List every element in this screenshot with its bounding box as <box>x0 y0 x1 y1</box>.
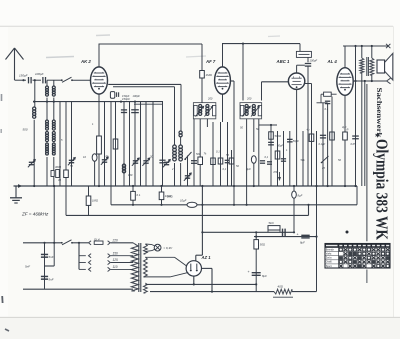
coil T2b <box>52 120 55 123</box>
node j6 <box>270 124 272 126</box>
svg-text:5nF: 5nF <box>25 265 30 269</box>
node j19 <box>255 231 257 233</box>
wire grid down <box>261 82 263 101</box>
svg-text:220: 220 <box>112 239 119 243</box>
svg-text:25: 25 <box>321 166 325 170</box>
resistor R14 10k <box>159 192 164 200</box>
svg-text:4μF: 4μF <box>246 167 251 171</box>
coil IF1a <box>199 104 202 107</box>
wire v66 low <box>65 186 67 215</box>
resistor R2 <box>97 136 102 154</box>
wire v227 <box>227 122 229 186</box>
wire rail y232 <box>202 231 294 233</box>
node j9 <box>364 80 366 82</box>
transformer IF1 frame <box>193 103 215 119</box>
resistor R17 <box>254 240 259 249</box>
wire S2 down <box>187 156 189 187</box>
capacitor C11 <box>268 141 274 143</box>
wire AZ1 cathode <box>193 276 195 284</box>
wire v243 top <box>242 44 244 101</box>
wire T1b top <box>53 80 55 86</box>
resistor R12 <box>343 132 348 140</box>
wire spk top <box>371 46 373 58</box>
wire rail y215 <box>66 214 309 216</box>
svg-text:8μF: 8μF <box>298 194 303 198</box>
wire grid links <box>331 93 336 95</box>
wire Ce2 down <box>253 163 255 186</box>
wire v283 <box>283 131 285 186</box>
svg-text:50k: 50k <box>301 158 306 162</box>
wire C1-C2 <box>33 79 42 81</box>
wire v66 <box>65 102 67 186</box>
wire v259 <box>258 119 260 186</box>
wire ABC1 topcap <box>296 65 298 73</box>
node j13 <box>293 231 295 233</box>
svg-text:≈ 6,3V: ≈ 6,3V <box>164 246 174 250</box>
trimmer CT4 <box>133 160 138 162</box>
resistor R4 <box>198 157 203 165</box>
wire v162 <box>162 102 164 186</box>
node j17 <box>201 204 203 206</box>
svg-text:500: 500 <box>23 128 28 132</box>
node j18 <box>255 283 257 285</box>
svg-text:50kΩ: 50kΩ <box>275 134 283 138</box>
coil T2d <box>52 132 55 135</box>
resistor R10 <box>309 134 314 141</box>
resistor R6 <box>218 158 223 164</box>
wire rail y236 <box>254 236 317 238</box>
wire AL4 anode up <box>344 46 346 68</box>
terminal arrow <box>387 78 391 84</box>
wire jog y266 <box>45 265 55 267</box>
wire selector stem <box>78 243 80 270</box>
svg-text:100: 100 <box>128 173 133 177</box>
coil L1 <box>33 107 36 110</box>
wire AK2 right <box>108 83 181 85</box>
transformer mains primary <box>131 244 138 291</box>
coil T2c <box>46 132 49 135</box>
svg-text:0.1: 0.1 <box>216 150 220 154</box>
resistor R8 50k <box>269 132 274 139</box>
coil sec pilot <box>144 244 148 254</box>
wire v311 <box>311 84 313 187</box>
wire bottom rail <box>150 291 274 293</box>
wire v332 <box>331 97 333 187</box>
capacitor Ce3 8uF <box>292 191 297 198</box>
tube AK2 <box>91 67 108 94</box>
smudges <box>46 35 280 58</box>
svg-text:Sachsenwerk: Sachsenwerk <box>375 88 382 138</box>
svg-text:50Ω: 50Ω <box>260 242 266 246</box>
wire L4b down <box>180 163 182 186</box>
wire IF1b down <box>206 119 208 127</box>
selector row150 <box>79 255 86 257</box>
capacitor C16 <box>282 229 284 236</box>
tube AF7 <box>215 67 231 94</box>
svg-text:150pF: 150pF <box>122 94 130 98</box>
svg-text:500: 500 <box>196 152 201 156</box>
transformer speaker core <box>366 57 368 76</box>
svg-text:200: 200 <box>207 97 213 101</box>
capacitor C2 100pF <box>42 77 44 83</box>
resistor R1 1M <box>200 71 205 79</box>
wire field down <box>361 73 363 186</box>
capacitor C17 8uF <box>301 234 309 236</box>
wire y104 short <box>134 103 163 105</box>
wire v231 <box>231 150 233 186</box>
wire L4a top <box>174 87 176 145</box>
coil L4b <box>179 145 183 149</box>
svg-text:0.1: 0.1 <box>137 193 141 197</box>
capacitor C10 100pF <box>305 63 311 65</box>
wire IF1a down <box>199 119 201 157</box>
wire top bus C <box>343 45 388 47</box>
wire v256 <box>255 232 257 291</box>
wire T1a top <box>46 80 48 86</box>
wire AK2 anode up <box>98 44 100 67</box>
selector row110 <box>79 268 86 270</box>
wire tap220 <box>111 242 133 244</box>
svg-text:AF 7: AF 7 <box>205 59 216 64</box>
coil sec heater <box>144 283 148 293</box>
wire ABC1 grid <box>262 81 289 83</box>
capacitor C9 box <box>296 51 311 57</box>
resistor R16 5k <box>268 226 280 230</box>
speaker <box>377 60 385 73</box>
svg-text:100pF: 100pF <box>133 94 141 98</box>
node j3 <box>33 101 35 103</box>
trimmer IF1 arrows <box>195 107 203 117</box>
wire v124 <box>123 102 125 186</box>
wire field top <box>361 46 363 58</box>
capacitor C20 8uF <box>252 272 261 274</box>
coil T1a <box>46 86 49 89</box>
svg-text:Bereich: Bereich <box>326 248 335 251</box>
wire v161 <box>161 186 163 205</box>
node j8 <box>361 45 363 47</box>
wire R1 down <box>201 78 203 103</box>
resistor Rg grid <box>324 92 332 96</box>
svg-text:50: 50 <box>226 153 229 157</box>
wire y125 <box>259 124 277 126</box>
capacitor padder Cp2 <box>51 171 54 177</box>
capacitor Ce2 4uF <box>251 156 256 164</box>
wire v111 <box>110 102 112 205</box>
svg-text:P4: P4 <box>274 170 278 174</box>
wire bus B right down <box>299 44 301 52</box>
capacitor C8 <box>225 159 231 161</box>
wire R4 down <box>199 165 201 187</box>
wire v104 <box>104 102 106 186</box>
wire AL4 anode right <box>354 80 387 82</box>
svg-text:200: 200 <box>246 97 252 101</box>
wire mains L2 <box>73 242 89 244</box>
wire heater rail <box>145 283 256 285</box>
node j7 <box>354 45 356 47</box>
wire v88 low <box>88 186 90 215</box>
svg-text:AL 4: AL 4 <box>327 59 338 64</box>
wire AF7 grid right <box>231 80 234 82</box>
resistor R3 <box>113 139 118 149</box>
svg-text:50pF: 50pF <box>293 139 299 143</box>
coil L3 <box>179 131 182 134</box>
wire v277 <box>277 131 279 186</box>
svg-text:Vorkr.: Vorkr. <box>326 253 332 256</box>
wire B+ corner <box>196 254 203 256</box>
wire ABC1 anode right <box>304 83 311 85</box>
wire v60 <box>59 102 61 186</box>
wire top bus B <box>222 43 300 45</box>
node j15 <box>78 242 80 244</box>
svg-text:4μF: 4μF <box>342 125 347 129</box>
wire v54 chassis <box>53 186 55 266</box>
capacitor C4 <box>121 109 127 111</box>
wire T1b down <box>53 98 55 120</box>
node j4 <box>120 101 122 103</box>
svg-text:100pF: 100pF <box>310 59 318 63</box>
wire L4a down <box>174 163 176 186</box>
wire v115 <box>115 102 117 186</box>
wire v294 seg <box>293 186 295 232</box>
table voltages <box>325 244 390 269</box>
wire T1a down <box>46 98 48 120</box>
resistor field coil <box>360 58 364 73</box>
switch S2 <box>185 152 191 159</box>
wire v234 <box>233 81 235 205</box>
wire trafo top <box>133 243 135 244</box>
wire v364 <box>364 81 366 186</box>
capacitor C15 <box>352 135 359 137</box>
svg-text:10μF: 10μF <box>180 199 187 203</box>
resistor R11 <box>330 132 335 140</box>
node j14 <box>255 236 257 238</box>
trimmer IF2 arrows <box>242 107 250 117</box>
svg-text:Olympia 383 WK: Olympia 383 WK <box>372 139 391 240</box>
wire v194 <box>193 119 195 187</box>
node j11 <box>233 204 235 206</box>
coil IF2a <box>245 104 248 107</box>
svg-text:40Ω: 40Ω <box>278 285 284 289</box>
transformer IF2 frame <box>240 103 262 119</box>
capacitor C18 5nF <box>41 253 48 255</box>
contact a1 <box>89 241 92 245</box>
capacitor Cg <box>325 100 330 102</box>
coil sec HV <box>144 257 148 277</box>
svg-text:AK 2: AK 2 <box>80 59 91 64</box>
switch S1 <box>61 79 63 81</box>
trimmer CT2 <box>69 159 74 161</box>
coil L4a <box>173 145 177 149</box>
selector row125 <box>79 262 86 264</box>
coil L2 <box>122 164 125 167</box>
wire T3b down <box>53 157 55 186</box>
wire bus A down <box>201 44 203 71</box>
coil IF1b <box>206 104 209 107</box>
wire B+ down <box>201 186 203 255</box>
resistor Rp <box>64 170 69 178</box>
antenna <box>14 49 16 80</box>
wire rail y205 <box>111 204 357 206</box>
wire v71 <box>71 102 73 186</box>
lamp pilot <box>154 244 161 251</box>
capacitor Ce4 10uF <box>187 202 197 207</box>
node j16 <box>53 242 55 244</box>
wire mains N <box>23 288 133 290</box>
svg-text:8μF: 8μF <box>262 274 267 278</box>
wire to L1 <box>34 80 36 107</box>
svg-text:Oszill.: Oszill. <box>326 261 333 264</box>
coil T3b <box>52 143 55 146</box>
resistor R15 1M <box>86 196 91 205</box>
resistor R13 <box>131 191 136 200</box>
svg-text:150pF: 150pF <box>19 74 28 78</box>
wire AL4 cathode <box>344 95 346 186</box>
capacitor padder Cp1 <box>56 170 60 178</box>
wire top bus A <box>99 43 203 45</box>
tube AZ1 <box>186 261 201 276</box>
ground <box>15 186 17 197</box>
capacitor grid AK2 <box>110 92 114 99</box>
svg-text:5nF: 5nF <box>49 277 54 281</box>
wire T3a down <box>46 157 48 186</box>
wire v140 <box>140 102 142 186</box>
switch S3 <box>322 156 329 163</box>
wire bus y102 <box>33 101 163 103</box>
wire HV top to AZ1 <box>145 256 174 258</box>
svg-text:5kΩ: 5kΩ <box>269 221 275 225</box>
capacitor C7 <box>191 160 197 162</box>
svg-text:ABC 1: ABC 1 <box>276 59 291 64</box>
wire v308 stub <box>308 205 310 216</box>
capacitor C14 <box>320 134 326 136</box>
wire v135 <box>134 102 136 186</box>
wire IF2b down <box>253 119 255 152</box>
svg-text:0,1: 0,1 <box>265 155 269 159</box>
wire L1 down <box>33 120 35 186</box>
svg-text:25: 25 <box>185 176 189 180</box>
node j1 <box>22 79 24 81</box>
wire AK2 screen <box>113 86 175 88</box>
ink speck <box>346 231 349 234</box>
svg-text:0.1μF: 0.1μF <box>319 142 326 146</box>
tube ABC1 <box>288 73 304 89</box>
svg-text:150: 150 <box>113 251 119 255</box>
wire IF2a down <box>246 119 248 205</box>
wire rail corner <box>356 186 358 205</box>
coil IF2b <box>252 104 255 107</box>
transformer core <box>138 243 140 292</box>
wire C9 down <box>307 57 309 62</box>
wire v213 <box>212 122 214 186</box>
separator line <box>366 84 368 241</box>
capacitor C12 <box>281 158 286 160</box>
capacitor Ce1 <box>92 154 97 162</box>
wire AF7 anode up <box>222 44 224 67</box>
wire v153 <box>152 102 154 186</box>
trimmer CT1 <box>29 161 34 163</box>
svg-text:0,1: 0,1 <box>223 167 227 171</box>
coil T1b <box>52 86 55 89</box>
wire ABC1 cathode <box>296 89 298 186</box>
resistor R9 <box>275 151 280 159</box>
wire v220 <box>220 122 222 186</box>
coil T2a <box>46 120 49 123</box>
svg-text:0.05: 0.05 <box>351 142 357 146</box>
svg-text:8μF: 8μF <box>300 241 305 245</box>
resistor heater zigzag <box>274 289 292 294</box>
svg-text:+: + <box>297 232 299 236</box>
tube AL4 <box>337 68 353 96</box>
coil T3a <box>46 143 49 146</box>
svg-text:Zw.kr.: Zw.kr. <box>326 257 333 260</box>
wire v146 <box>145 102 147 186</box>
wire C10 down <box>307 66 309 186</box>
wire v355 <box>355 46 357 186</box>
svg-text:1MΩ: 1MΩ <box>92 199 99 203</box>
trimmer CT5 <box>143 160 148 162</box>
wire v327 <box>327 104 329 186</box>
wire v289 <box>289 131 291 186</box>
capacitor C6 <box>159 159 165 161</box>
node j12 <box>307 204 309 206</box>
node j5 <box>242 43 244 45</box>
terminal x1 <box>386 44 390 48</box>
svg-text:R: R <box>347 128 349 132</box>
svg-text:110: 110 <box>113 265 118 269</box>
node j10 <box>371 80 373 82</box>
coil speaker primary <box>370 58 374 75</box>
resistor R5 <box>211 158 216 165</box>
capacitor C12b <box>260 160 265 162</box>
wire v323 <box>322 103 324 186</box>
switch mains <box>61 242 63 244</box>
svg-text:1MΩ: 1MΩ <box>167 195 173 199</box>
svg-text:125: 125 <box>113 258 119 262</box>
contact b1 <box>108 241 111 245</box>
wire mains L1 <box>23 242 62 244</box>
svg-text:+: + <box>248 270 250 274</box>
capacitor C1 150pF <box>28 77 30 83</box>
wire C2 to switch <box>47 79 62 81</box>
svg-text:1MΩ: 1MΩ <box>206 73 213 77</box>
wire v316 <box>316 131 318 292</box>
svg-text:3000: 3000 <box>55 165 61 169</box>
wire osc down <box>180 84 182 131</box>
wire v44 <box>44 243 46 289</box>
wire chassis bus <box>14 185 358 187</box>
wire v133 <box>132 186 134 205</box>
scan specks <box>1 94 3 101</box>
svg-text:0.1: 0.1 <box>325 107 329 111</box>
bus arrow <box>18 184 22 188</box>
wire v129 <box>129 102 131 186</box>
capacitor C13 50pF <box>287 138 293 140</box>
wire antenna to C1 <box>15 79 27 81</box>
svg-text:5nF: 5nF <box>49 255 54 259</box>
trimmer CT6 <box>185 175 190 177</box>
wire L3 down <box>180 137 182 145</box>
wire AF7 cathode <box>222 94 224 122</box>
wire HV bot to AZ1 <box>145 276 170 278</box>
wire pilot top <box>145 243 152 246</box>
capacitor C12c <box>267 161 272 163</box>
node j2 <box>34 79 36 81</box>
capacitor C19 5nF <box>41 275 48 277</box>
svg-text:ZF = 468kHz: ZF = 468kHz <box>21 212 49 217</box>
capacitor C5 <box>131 109 139 111</box>
wire v271 <box>270 125 272 186</box>
wire spk bot <box>371 75 373 81</box>
